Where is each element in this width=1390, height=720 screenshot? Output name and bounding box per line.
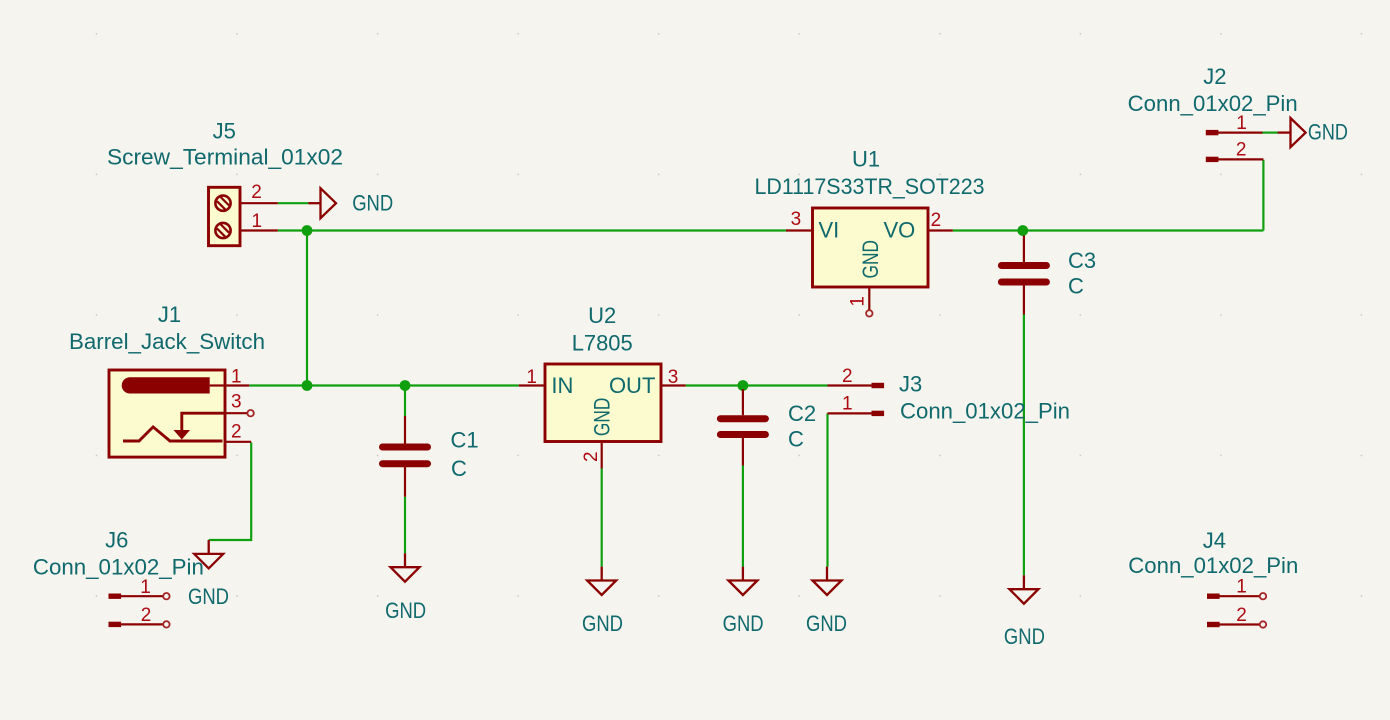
svg-text:J3: J3 <box>899 371 922 396</box>
J5 pin 1 <box>240 229 278 231</box>
U1 pin 1 GND bottom <box>868 287 870 310</box>
svg-text:OUT: OUT <box>609 373 655 398</box>
ground GND below J3 <box>813 567 842 595</box>
svg-text:J4: J4 <box>1203 528 1226 553</box>
svg-text:3: 3 <box>231 392 242 413</box>
wire C3 bottom to GND <box>1023 315 1025 576</box>
J5 pin 2 <box>240 202 278 204</box>
svg-text:L7805: L7805 <box>572 330 633 355</box>
svg-text:GND: GND <box>806 611 847 636</box>
svg-text:GND: GND <box>1004 624 1045 649</box>
wire C1 top <box>404 386 406 417</box>
svg-text:1: 1 <box>848 296 869 307</box>
ground GND below C3 <box>1009 575 1038 603</box>
wire VIN top rail left <box>278 229 786 231</box>
wire C1 bottom to GND <box>404 497 406 554</box>
svg-text:U1: U1 <box>852 147 880 172</box>
svg-text:J1: J1 <box>158 302 181 327</box>
svg-text:LD1117S33TR_SOT223: LD1117S33TR_SOT223 <box>755 174 985 199</box>
connector J6 pin 1 <box>109 593 170 599</box>
svg-text:Conn_01x02_Pin: Conn_01x02_Pin <box>1128 91 1298 116</box>
connector J6 pin 2 <box>109 621 170 627</box>
wire U2 pin2 to GND <box>601 469 603 567</box>
regulator U2 body <box>545 364 661 442</box>
wire C3 top <box>1023 231 1025 236</box>
connector J2 pin 2 <box>1206 157 1264 162</box>
svg-text:U2: U2 <box>588 303 616 328</box>
svg-text:Barrel_Jack_Switch: Barrel_Jack_Switch <box>69 329 265 354</box>
regulator U1 body <box>813 208 929 287</box>
connector J4 pin 1 <box>1207 593 1266 599</box>
U1 pin 3 VI <box>786 229 813 231</box>
connector J2 pin 1 <box>1206 130 1263 135</box>
svg-text:1: 1 <box>1236 577 1247 598</box>
svg-text:C2: C2 <box>788 401 816 426</box>
J1 pin 3 <box>225 412 247 414</box>
U2 pin 1 IN <box>519 384 545 386</box>
wire 3V3 rail U1 to J2 <box>953 229 1264 231</box>
svg-text:GND: GND <box>582 611 623 636</box>
wire J5 pin2 to GND <box>278 202 309 204</box>
junction at J5 pin1 <box>302 225 313 236</box>
svg-text:1: 1 <box>252 211 263 232</box>
svg-text:C: C <box>451 456 467 481</box>
wire J2 pin1 to GND <box>1263 132 1278 134</box>
svg-text:GND: GND <box>188 584 229 609</box>
ground GND below C1 <box>391 553 420 581</box>
svg-text:GND: GND <box>385 598 426 623</box>
svg-text:2: 2 <box>581 451 602 462</box>
junction at C1 top <box>400 380 411 391</box>
svg-text:2: 2 <box>231 421 242 442</box>
wire C2 top <box>742 386 744 391</box>
svg-text:2: 2 <box>931 210 942 231</box>
connector J3 pin 2 <box>828 383 885 388</box>
capacitor C1 <box>383 416 428 497</box>
svg-text:J6: J6 <box>105 528 128 553</box>
wire J1 pin2 to GND <box>209 443 252 541</box>
J1 pin 3 no-connect circle <box>247 410 253 416</box>
ground GND below C2 <box>728 567 757 595</box>
U2 pin 2 GND bottom <box>601 442 603 469</box>
wire J3 pin1 to GND <box>826 413 828 566</box>
connector J5 body <box>209 187 241 245</box>
wire C2 bottom to GND <box>742 466 744 567</box>
connector J1 barrel jack body <box>109 370 225 457</box>
svg-text:C: C <box>788 427 804 452</box>
wire J2 pin2 vertical <box>1262 160 1264 231</box>
svg-text:GND: GND <box>858 240 883 279</box>
connector J3 pin 1 <box>828 411 885 416</box>
ground GND right of J5 <box>308 188 336 218</box>
svg-text:GND: GND <box>590 398 615 437</box>
svg-text:VO: VO <box>884 218 916 243</box>
svg-text:2: 2 <box>251 182 262 203</box>
U2 pin 3 OUT <box>661 384 686 386</box>
capacitor C2 <box>720 389 765 466</box>
svg-text:C1: C1 <box>451 428 479 453</box>
svg-text:2: 2 <box>1236 140 1247 161</box>
svg-text:1: 1 <box>842 394 853 415</box>
U1 pin 2 VO <box>928 229 953 231</box>
svg-text:2: 2 <box>141 605 152 626</box>
svg-text:1: 1 <box>140 577 151 598</box>
junction at C3 top <box>1017 225 1028 236</box>
svg-text:GND: GND <box>1308 120 1348 145</box>
svg-text:2: 2 <box>1236 605 1247 626</box>
svg-text:Conn_01x02_Pin: Conn_01x02_Pin <box>1128 553 1298 578</box>
svg-text:3: 3 <box>791 209 802 230</box>
J1 pin 1 <box>225 384 249 386</box>
svg-text:IN: IN <box>551 373 573 398</box>
svg-text:3: 3 <box>668 367 679 388</box>
ground GND right of J2 <box>1278 118 1306 147</box>
svg-text:GND: GND <box>723 611 764 636</box>
svg-text:VI: VI <box>819 218 840 243</box>
svg-text:C: C <box>1068 274 1084 299</box>
svg-text:1: 1 <box>526 367 537 388</box>
connector J4 pin 2 <box>1207 621 1266 627</box>
wire VIN lower rail <box>249 384 518 386</box>
junction at C2 top <box>738 380 749 391</box>
svg-text:Conn_01x02_Pin: Conn_01x02_Pin <box>900 398 1070 423</box>
wire vertical J5 to J1 rail <box>306 231 308 386</box>
wire 5V rail U2 to J3 <box>686 384 828 386</box>
svg-text:1: 1 <box>231 367 242 388</box>
svg-text:Conn_01x02_Pin: Conn_01x02_Pin <box>33 555 204 580</box>
svg-text:C3: C3 <box>1068 248 1096 273</box>
svg-text:GND: GND <box>352 190 393 215</box>
svg-text:Screw_Terminal_01x02: Screw_Terminal_01x02 <box>107 145 343 170</box>
J1 pin 2 <box>225 441 251 443</box>
svg-text:J5: J5 <box>213 119 236 144</box>
ground GND below J1 <box>194 540 223 568</box>
ground GND below U2 <box>587 567 616 595</box>
capacitor C3 <box>1001 236 1046 315</box>
svg-text:2: 2 <box>842 366 853 387</box>
U1 pin 1 no-connect circle <box>866 310 872 316</box>
junction at J1 pin1 <box>302 380 313 391</box>
svg-text:J2: J2 <box>1203 64 1226 89</box>
